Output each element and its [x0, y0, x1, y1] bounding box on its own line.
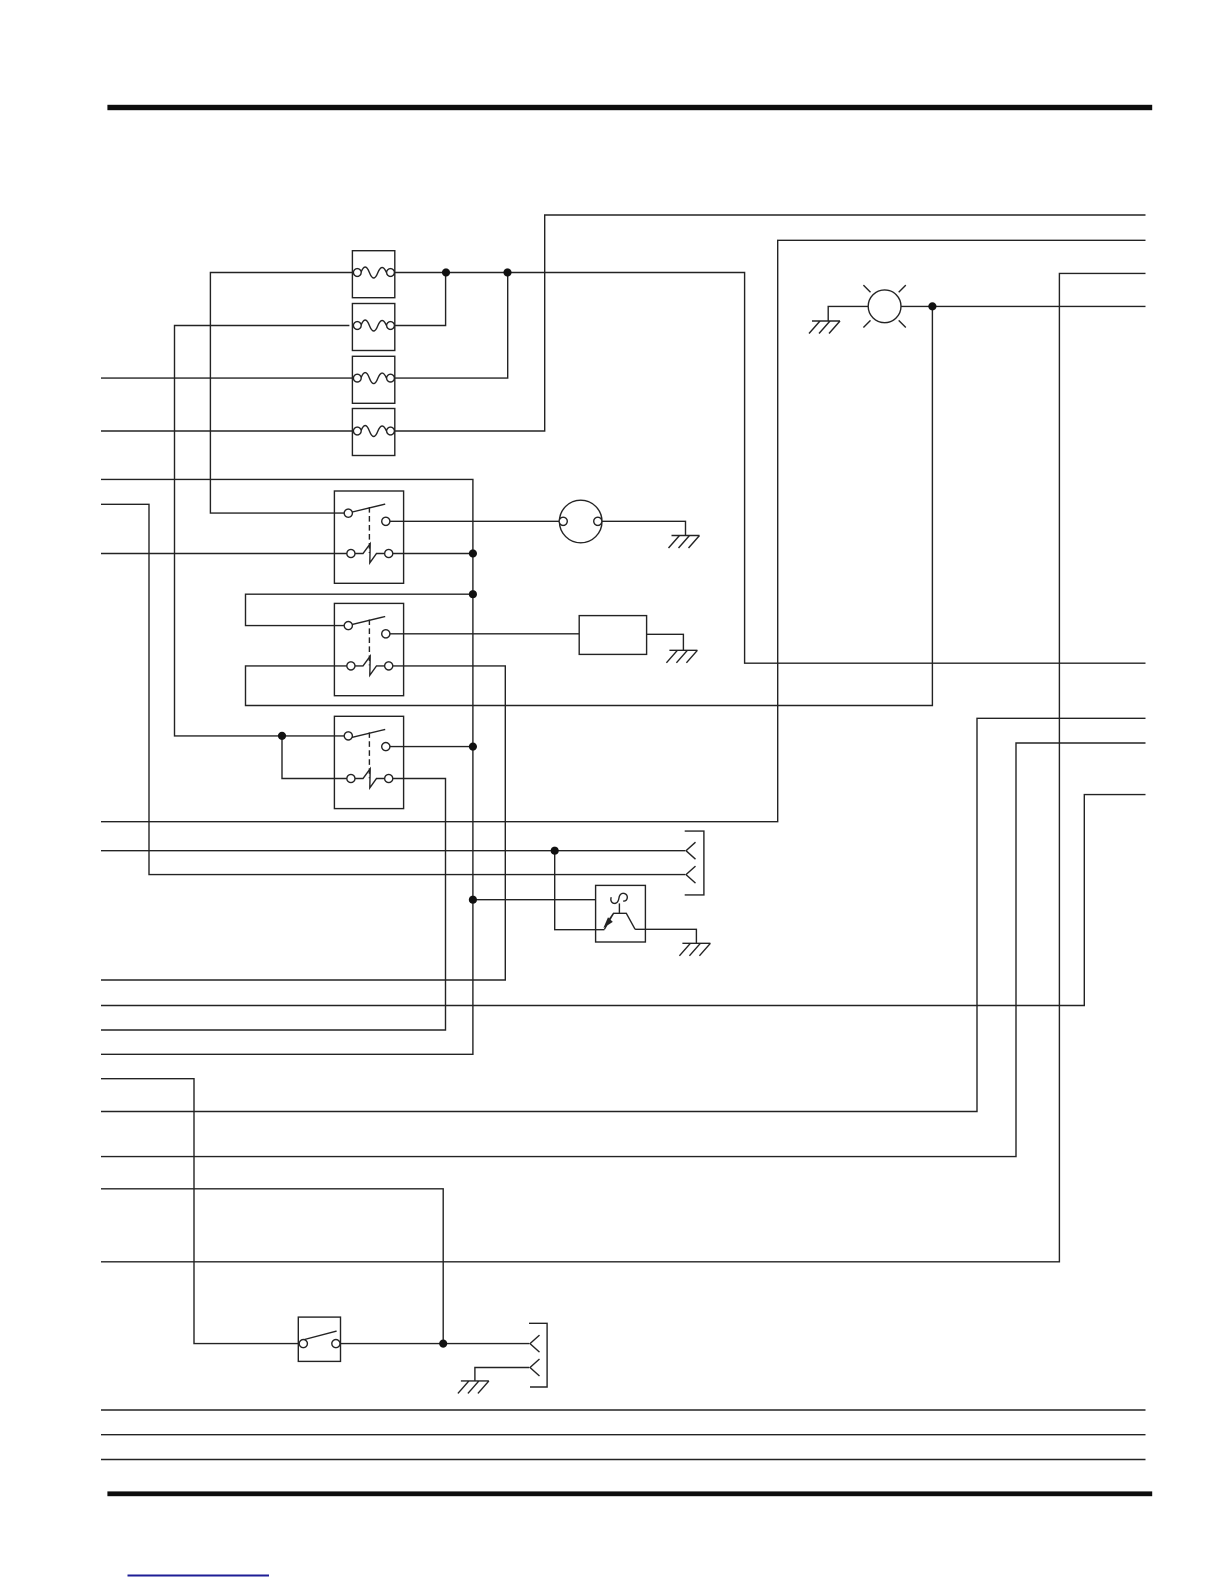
- wire: left bus y=822 up the distribution box to right edge: [101, 240, 1146, 821]
- junction relay K3 feed: [278, 732, 286, 740]
- wire: left bus y=851 to connector arrow CN1-1: [101, 850, 685, 852]
- wire: left bus y=1189 down to switch output junction: [101, 1189, 443, 1344]
- junction relay K3 output on trunk: [469, 743, 477, 751]
- ground G2 (connector plug): [669, 536, 700, 549]
- ground G1 (lamp): [809, 321, 840, 334]
- ground G4 (circuit breaker): [679, 943, 710, 956]
- wire: fuse F1 output bus with corner to right edge: [394, 273, 1145, 664]
- wire: relay K2 contact output to horn unit: [390, 633, 580, 635]
- fuse F1: [352, 251, 394, 298]
- wire: fuse F2 supply feed down to relay K3 contact input: [175, 326, 350, 736]
- door switch S1: [298, 1317, 340, 1361]
- wire: relay K1 contact output to connector plug P1: [390, 520, 560, 522]
- wire: fuse F3 input from left edge: [101, 377, 353, 379]
- wire: loop from trunk junction to relay K2 contact input: [246, 594, 473, 625]
- wire: relay K3 contact output to trunk junction: [390, 746, 473, 748]
- junction door switch output: [439, 1340, 447, 1348]
- wire: long note line 3: [101, 1459, 1146, 1461]
- wire: fuse F2 output up to junction A: [394, 273, 445, 326]
- junction breaker upper input on trunk: [469, 896, 477, 904]
- relay K2: [334, 603, 403, 695]
- connector arrow CN2-2: [530, 1359, 540, 1376]
- junction at lamp output: [928, 302, 936, 310]
- ground G5 (door switch connector): [458, 1381, 489, 1394]
- connector housing bracket CN1: [685, 831, 704, 895]
- relay K1: [334, 491, 403, 583]
- wire: left bus y=1079 down to door switch S1: [101, 1079, 298, 1344]
- connector arrow CN1-1: [686, 842, 696, 859]
- wire: lamp input to ground G1: [828, 306, 868, 321]
- wire: left bus y=1111 up to right edge: [101, 718, 1146, 1111]
- wire: relay K2 coil left loop down along y=704.5 and up to lamp junction: [246, 306, 933, 705]
- connector housing bracket CN2: [529, 1323, 547, 1387]
- junction A on fuse F1 bus: [442, 268, 450, 276]
- connector arrow CN1-2: [686, 866, 696, 883]
- wire: lamp output line to right edge: [901, 305, 1146, 307]
- wire: circuit breaker CB output to ground G4: [635, 929, 696, 943]
- wire: connector plug P1 to ground G2: [602, 521, 686, 535]
- junction breaker feed on bus y=851: [551, 847, 559, 855]
- junction loop top on trunk: [469, 590, 477, 598]
- wire: long note line 2: [101, 1434, 1146, 1436]
- wire: long note line 1: [101, 1409, 1146, 1411]
- wire: fuse F3 output up to junction B: [394, 273, 507, 379]
- wire: junction drop to relay K3 coil left pin: [282, 736, 347, 779]
- circuit breaker CB: [596, 885, 646, 942]
- wire: fuse F1 supply from vertical feed to relay K1 coil input: [210, 273, 353, 514]
- wire: left bus y=1262 up to right edge: [101, 273, 1146, 1261]
- wire: fuse F4 input from left edge: [101, 430, 353, 432]
- footer link underline: [128, 1575, 270, 1577]
- wire: left bus y=1157 up to right edge: [101, 743, 1146, 1157]
- junction B on fuse F1 bus: [503, 268, 511, 276]
- wire: connector arrow CN2-2 to ground G5: [475, 1368, 529, 1381]
- wire: left bus y=1005 up to right edge: [101, 795, 1146, 1006]
- wire: left input down x=149 to connector arrow CN1-2: [101, 504, 685, 874]
- fuse F2: [352, 304, 394, 351]
- fuse F4: [352, 409, 394, 456]
- indicator lamp: [863, 285, 905, 327]
- wire: fuse F4 output up and right to edge: [394, 215, 1145, 431]
- wire: left input bus to vertical trunk x=473 down and back left: [101, 479, 473, 1054]
- ground G3 (horn): [666, 650, 697, 663]
- bottom page border rule: [107, 1491, 1152, 1496]
- relay K3: [334, 716, 403, 808]
- connector arrow CN2-1: [530, 1335, 540, 1352]
- wire: junction drop to circuit breaker CB lower input: [555, 851, 605, 930]
- junction relay K1 coil on trunk: [469, 549, 477, 557]
- wire: door switch S1 output to connector arrow CN2-1: [340, 1343, 529, 1345]
- wire: relay K2 coil right pin down and back to left edge: [101, 666, 505, 980]
- top page border rule: [107, 105, 1152, 110]
- fuse F3: [352, 356, 394, 403]
- connector plug P1 (round 2-terminal): [559, 500, 602, 543]
- wire: left input to relay K1 coil left pin: [101, 553, 347, 555]
- wire: relay K3 coil right pin down and back to left edge: [101, 779, 446, 1031]
- wire: relay K1 coil right pin to trunk junction: [392, 553, 473, 555]
- wire: horn unit to ground G3: [647, 634, 684, 650]
- horn unit box: [579, 616, 646, 655]
- wire: trunk junction to circuit breaker CB upper input: [473, 899, 596, 901]
